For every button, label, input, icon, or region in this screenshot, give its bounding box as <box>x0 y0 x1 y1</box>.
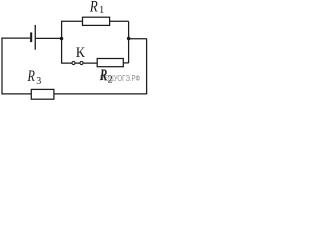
wire node B to right side <box>129 38 147 40</box>
wire battery left <box>1 37 30 39</box>
switch K contact circle right <box>80 61 83 64</box>
wire right side vertical <box>146 38 148 94</box>
resistor R3 body <box>31 89 54 99</box>
battery: short thick plate <box>30 32 32 42</box>
wire inner right vertical <box>128 21 130 63</box>
svg-text:R: R <box>89 0 98 15</box>
wire R2 right <box>123 62 128 64</box>
resistor R2 body <box>97 59 123 67</box>
wire R1 branch left <box>61 20 83 22</box>
svg-text:2: 2 <box>108 75 113 86</box>
wire K branch <box>62 62 98 64</box>
svg-text:К: К <box>76 45 85 61</box>
wire R1 branch right <box>110 20 129 22</box>
svg-text:1: 1 <box>99 5 104 16</box>
wire middle vertical node column <box>61 21 63 63</box>
node A junction dot <box>60 37 64 41</box>
wire bottom <box>1 93 147 95</box>
svg-text:R: R <box>27 68 36 85</box>
resistor R1 body <box>83 17 110 25</box>
wire battery right to node A <box>36 37 62 39</box>
wire left side vertical <box>1 38 3 94</box>
switch K contact circle left <box>72 61 75 64</box>
node B junction dot <box>127 37 131 41</box>
svg-text:3: 3 <box>36 76 41 87</box>
battery: long thin plate <box>35 25 36 50</box>
svg-text:R: R <box>99 67 107 84</box>
